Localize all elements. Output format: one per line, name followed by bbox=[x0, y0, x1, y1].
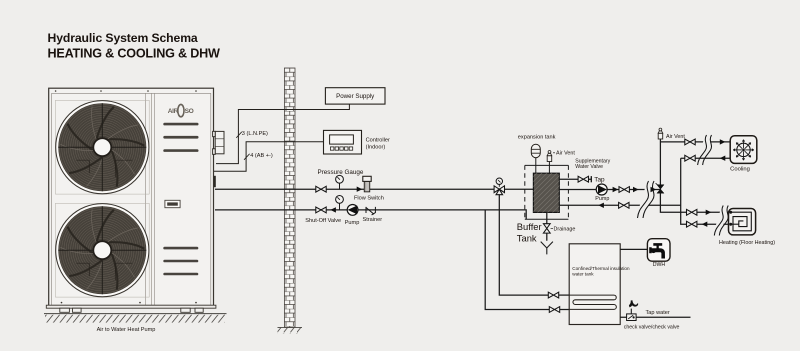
ground under wall bbox=[278, 326, 303, 328]
pipe: 3-way valve down to DHW coil bbox=[499, 195, 548, 295]
svg-text:Power Supply: Power Supply bbox=[336, 93, 375, 100]
riser B (cooling return to heating return) bbox=[681, 158, 729, 224]
shut-off valve (return) bbox=[316, 207, 326, 213]
svg-text:3 (L.N.PE): 3 (L.N.PE) bbox=[242, 131, 268, 137]
svg-text:Pressure Gauge: Pressure Gauge bbox=[318, 169, 364, 176]
svg-text:expansion tank: expansion tank bbox=[518, 135, 556, 141]
arrows + valve on pump line bbox=[613, 187, 619, 192]
pipe break (heating) bbox=[714, 206, 728, 236]
buffer tank module box bbox=[525, 165, 569, 219]
riser A (air vent to heating supply) bbox=[660, 139, 728, 212]
AIROSO logo bbox=[168, 104, 194, 116]
DHW heating coil bbox=[569, 295, 616, 309]
air vent (top right) bbox=[658, 128, 663, 139]
cooling return line bbox=[681, 157, 731, 159]
pump P2 bbox=[596, 184, 607, 195]
controller box bbox=[324, 130, 362, 154]
svg-text:Cooling: Cooling bbox=[730, 166, 750, 172]
pump P1 bbox=[347, 205, 358, 216]
expansion tank bbox=[531, 144, 540, 158]
pipe break symbol (main lines) bbox=[638, 181, 655, 218]
drain funnel bbox=[541, 242, 553, 255]
pipe: return line down to DHW coil return bbox=[485, 210, 549, 310]
flow arrow on supply bbox=[357, 187, 363, 192]
heating floor-coil unit bbox=[729, 209, 756, 235]
pressure gauge 2 bbox=[339, 203, 341, 210]
power supply box bbox=[325, 88, 385, 104]
svg-text:water tank: water tank bbox=[572, 272, 594, 277]
air vent (buffer) bbox=[547, 151, 552, 162]
svg-text:Flow Switch: Flow Switch bbox=[354, 196, 384, 202]
valve on return line bbox=[619, 202, 629, 208]
shut-off valve (supply) bbox=[316, 186, 326, 192]
supply pipe heat pump to 3-way valve bbox=[215, 188, 494, 190]
drainage valve bbox=[543, 224, 550, 233]
three-way valve bbox=[494, 178, 504, 195]
buffer tank body bbox=[533, 173, 559, 212]
arrow before riser valve bbox=[651, 187, 657, 192]
DHW storage tank bbox=[569, 244, 620, 325]
return pipe heat pump bbox=[215, 210, 526, 219]
svg-text:Tank: Tank bbox=[517, 232, 537, 243]
svg-text:Tap: Tap bbox=[594, 177, 605, 184]
expansion tank stem bbox=[535, 158, 537, 174]
lower vent slats bbox=[163, 247, 198, 276]
svg-text:Air to Water Heat Pump: Air to Water Heat Pump bbox=[97, 327, 156, 333]
flow arrow on return (left) bbox=[330, 207, 336, 212]
svg-text:Hydraulic System Schema: Hydraulic System Schema bbox=[48, 31, 198, 45]
DWH tap unit bbox=[647, 239, 670, 262]
upper vent slats bbox=[163, 123, 198, 152]
tap end bar bbox=[590, 176, 592, 182]
ground under heat pump bbox=[44, 313, 227, 315]
brick wall bbox=[284, 68, 295, 327]
svg-text:Tap water: Tap water bbox=[646, 310, 670, 316]
svg-text:HEATING & COOLING & DHW: HEATING & COOLING & DHW bbox=[48, 46, 220, 60]
svg-text:Controller: Controller bbox=[366, 137, 390, 143]
check valve stem + handle bbox=[630, 309, 632, 314]
cooling fan-coil unit bbox=[730, 136, 757, 164]
pressure gauge 1 bbox=[339, 183, 341, 189]
tap water line bbox=[620, 316, 690, 318]
valve heating supply bbox=[687, 209, 697, 215]
pipe stub flange bbox=[214, 176, 216, 187]
valve DHW coil return bbox=[549, 307, 559, 313]
return line into tank bbox=[559, 204, 680, 206]
pipe tank to DWH tap bbox=[620, 248, 647, 250]
valve DHW coil supply bbox=[548, 292, 558, 298]
drainage pipe bbox=[546, 212, 548, 240]
svg-text:Pump: Pump bbox=[345, 220, 360, 226]
svg-text:Shut-Off Valve: Shut-Off Valve bbox=[305, 218, 341, 224]
strainer bbox=[366, 207, 376, 215]
svg-text:check valve/check valve: check valve/check valve bbox=[624, 324, 680, 330]
air vent stem (buffer) bbox=[548, 161, 550, 173]
svg-text:Buffer: Buffer bbox=[517, 221, 542, 232]
heat pump cabinet bbox=[46, 88, 216, 308]
svg-text:(Indoor): (Indoor) bbox=[366, 145, 386, 151]
svg-text:Strainer: Strainer bbox=[363, 217, 383, 223]
check valve bbox=[627, 314, 637, 321]
svg-text:Confined/Thermal insulation: Confined/Thermal insulation bbox=[572, 266, 630, 271]
svg-text:Drainage: Drainage bbox=[554, 227, 576, 233]
svg-text:Water Valve: Water Valve bbox=[575, 164, 603, 170]
fan F2 (bottom) bbox=[55, 203, 149, 297]
svg-text:Pump: Pump bbox=[595, 196, 609, 202]
pump line from tank bbox=[559, 189, 660, 191]
supplementary water valve line bbox=[559, 178, 591, 180]
svg-text:SO: SO bbox=[185, 108, 194, 115]
check valve on riser A bbox=[657, 185, 664, 194]
svg-text:AIR: AIR bbox=[168, 108, 179, 115]
svg-text:Air Vent: Air Vent bbox=[666, 134, 685, 140]
flow switch bbox=[363, 176, 371, 192]
feet bbox=[60, 308, 203, 312]
svg-text:DWH: DWH bbox=[653, 262, 666, 268]
control display bbox=[165, 200, 180, 207]
wire 3 (L.N.PE) heat pump to power supply bbox=[216, 104, 349, 164]
svg-text:Heating (Floor Heating): Heating (Floor Heating) bbox=[719, 240, 775, 246]
fan F1 (top) bbox=[55, 100, 149, 194]
pipe break (cooling) bbox=[698, 135, 712, 165]
valve heating return bbox=[687, 221, 697, 227]
terminal box on heat pump bbox=[213, 131, 224, 154]
pipe: 3-way valve to buffer tank bbox=[505, 188, 534, 190]
cooling supply line bbox=[660, 141, 730, 143]
wire 4 (AB +-) heat pump to controller bbox=[214, 142, 323, 172]
svg-text:Air Vent: Air Vent bbox=[556, 150, 575, 156]
svg-text:4 (AB +-): 4 (AB +-) bbox=[250, 153, 273, 159]
